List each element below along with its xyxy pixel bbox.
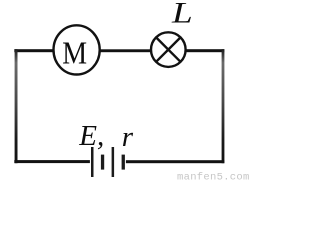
wire bottom-right horizontal xyxy=(126,160,224,163)
battery cell 2 negative plate xyxy=(122,155,125,170)
svg-text:M: M xyxy=(62,37,87,71)
wire between motor and lamp xyxy=(101,49,151,52)
svg-text:r: r xyxy=(122,121,134,153)
wire top-left horizontal xyxy=(14,49,52,52)
battery cell 1 negative plate xyxy=(101,155,104,170)
lamp L1 cross xyxy=(156,37,180,61)
motor U1 circle xyxy=(54,25,100,74)
svg-text:L: L xyxy=(171,0,193,29)
wire right vertical xyxy=(222,49,225,163)
wire left vertical xyxy=(15,49,18,163)
svg-text:manfen5.com: manfen5.com xyxy=(177,171,250,183)
svg-text:E,: E, xyxy=(78,120,104,152)
wire bottom-left horizontal xyxy=(14,160,90,163)
wire lamp to top-right corner xyxy=(187,49,225,52)
battery cell 1 positive plate xyxy=(91,147,94,177)
lamp L1 circle xyxy=(151,32,186,67)
battery cell 2 positive plate xyxy=(112,147,115,177)
